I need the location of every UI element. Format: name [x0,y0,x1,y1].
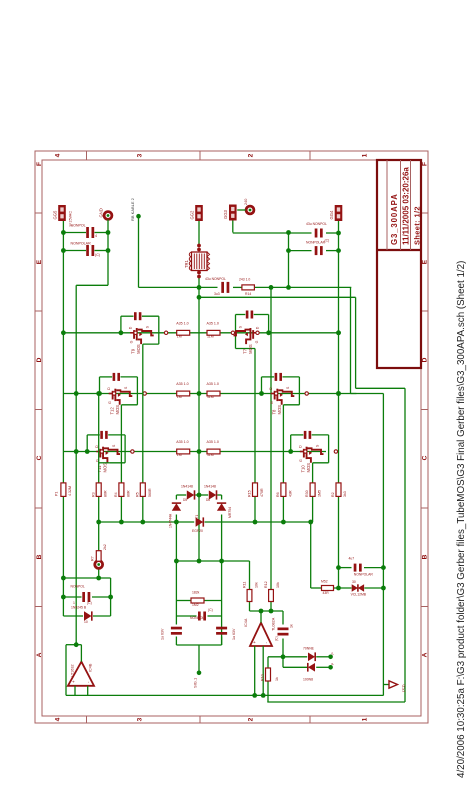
svg-text:470R: 470R [260,488,264,497]
svg-text:MOS: MOS [277,405,282,415]
svg-text:G: G [108,401,112,404]
svg-text:A35 1.0: A35 1.0 [207,440,219,444]
svg-text:1k: 1k [275,677,279,681]
svg-text:2: 2 [247,717,254,721]
svg-text:86R: 86R [104,490,108,497]
svg-text:SIG.1: SIG.1 [193,677,198,688]
svg-text:R15: R15 [248,490,252,497]
svg-text:(C): (C) [275,636,279,641]
svg-text:TR1: TR1 [184,259,189,268]
svg-text:3: 3 [136,717,143,721]
svg-text:D: D [298,445,302,448]
svg-text:MOS: MOS [248,344,253,354]
svg-text:T10: T10 [301,465,306,473]
svg-text:1N4148: 1N4148 [181,485,193,489]
svg-text:G: G [270,401,274,404]
svg-text:D: D [422,357,429,362]
svg-text:3u3: 3u3 [214,292,220,296]
svg-text:A: A [36,652,43,657]
svg-text:B: B [422,554,429,559]
svg-text:4: 4 [95,234,97,238]
svg-text:1M: 1M [177,395,182,399]
svg-text:D: D [269,387,273,390]
svg-text:1M: 1M [177,453,182,457]
svg-text:R5: R5 [135,492,139,497]
svg-text:G: G [299,459,303,462]
svg-text:B: B [36,554,43,559]
svg-text:182k: 182k [192,591,200,595]
svg-text:P1: P1 [55,492,59,496]
svg-text:4u7: 4u7 [349,557,355,561]
svg-text:F: F [422,162,429,166]
svg-text:R7: R7 [91,556,95,561]
svg-text:(C): (C) [87,601,92,605]
svg-text:MOS: MOS [103,463,108,473]
svg-text:G3_300APA: G3_300APA [390,193,399,245]
svg-text:A35 1.0: A35 1.0 [207,382,219,386]
svg-text:MOS: MOS [136,344,141,354]
svg-text:R3: R3 [91,492,95,497]
svg-text:GG5: GG5 [52,210,57,220]
svg-text:1M2: 1M2 [192,603,199,607]
svg-text:TL082A: TL082A [272,617,276,631]
svg-text:243 1.0: 243 1.0 [239,278,250,282]
svg-text:R30: R30 [305,490,309,497]
svg-text:LT1632: LT1632 [71,664,75,677]
svg-text:10k: 10k [255,582,259,588]
svg-text:1N4148: 1N4148 [204,485,216,489]
svg-text:3k3: 3k3 [343,491,347,497]
svg-text:A35 1.0: A35 1.0 [176,382,188,386]
svg-text:+: + [71,680,76,683]
svg-text:1=15VAC: 1=15VAC [69,211,73,227]
svg-text:1u 63V: 1u 63V [232,628,236,640]
svg-text:P: P [331,652,335,654]
svg-text:(C): (C) [208,608,213,612]
svg-text:86R: 86R [126,490,130,497]
svg-text:1M: 1M [177,334,182,338]
svg-text:(C): (C) [95,253,100,257]
svg-text:D6: D6 [206,498,210,502]
svg-text:IC4B: IC4B [89,663,93,672]
svg-text:Sheet: 1/2: Sheet: 1/2 [412,206,421,245]
svg-text:R14: R14 [245,292,251,296]
svg-text:T11: T11 [97,465,102,473]
svg-text:G: G [129,340,133,343]
svg-text:NONPOL: NONPOL [71,224,86,228]
svg-text:11/11/2005 03:20:26a: 11/11/2005 03:20:26a [402,167,411,245]
svg-text:A35 1.0: A35 1.0 [176,322,188,326]
svg-text:NONPOL: NONPOL [190,616,204,620]
svg-text:GG3: GG3 [223,209,228,219]
svg-text:RB KABLE 2: RB KABLE 2 [130,197,135,221]
svg-text:GG2: GG2 [189,210,194,220]
svg-text:D: D [107,387,111,390]
svg-text:G: G [255,340,259,343]
svg-text:R6: R6 [276,492,280,497]
svg-text:NONPOL: NONPOL [71,585,85,589]
svg-text:10: 10 [84,620,88,624]
svg-text:M52: M52 [321,580,328,584]
svg-text:F: F [36,162,43,166]
svg-text:43R: 43R [323,591,330,595]
svg-text:C: C [422,455,429,460]
svg-text:T7: T7 [243,348,248,354]
svg-text:GG4: GG4 [329,210,334,220]
svg-text:MOS: MOS [306,463,311,473]
svg-text:MOS: MOS [115,405,120,415]
svg-text:VCL12MB: VCL12MB [351,593,367,597]
svg-text:100N8: 100N8 [303,678,313,682]
svg-text:NONPOLAR: NONPOLAR [71,242,92,246]
svg-text:1N4744A: 1N4744A [169,513,173,528]
svg-text:4/20/2006 10:30:25a F:\G3 pro: 4/20/2006 10:30:25a F:\G3 product folder… [456,261,467,778]
svg-text:70NNE: 70NNE [303,647,315,651]
svg-text:MR754: MR754 [228,507,232,518]
svg-text:R10: R10 [261,674,265,681]
svg-text:1: 1 [73,601,75,605]
svg-text:30: 30 [352,580,356,584]
svg-text:2: 2 [247,153,254,157]
svg-text:2k2: 2k2 [103,544,107,550]
svg-text:240: 240 [244,199,248,205]
svg-text:1: 1 [361,153,368,157]
svg-text:1k: 1k [290,624,294,628]
svg-text:A35 1.0: A35 1.0 [176,440,188,444]
svg-text:T8: T8 [271,409,276,415]
svg-text:A: A [422,652,429,657]
svg-text:43R: 43R [288,490,292,497]
svg-text:D5: D5 [183,498,187,502]
svg-text:4.32M: 4.32M [68,486,72,496]
svg-text:1: 1 [361,717,368,721]
svg-text:D: D [256,326,260,329]
svg-text:R12: R12 [264,581,268,588]
svg-text:D: D [36,357,43,362]
svg-text:(C): (C) [325,239,330,243]
svg-text:T9: T9 [131,348,136,354]
svg-text:1u 63V: 1u 63V [161,628,165,640]
svg-text:T12: T12 [109,407,114,415]
svg-text:4: 4 [54,153,61,157]
svg-text:P: P [331,663,335,665]
svg-text:1M5: 1M5 [318,490,322,497]
svg-text:1N5245 B: 1N5245 B [71,606,87,610]
svg-text:EGP20: EGP20 [192,529,203,533]
svg-text:4: 4 [54,717,61,721]
svg-text:43u NONPOL: 43u NONPOL [205,277,226,281]
svg-text:10k: 10k [276,582,280,588]
svg-text:NONPOLAR: NONPOLAR [354,573,374,577]
svg-text:A35 1.0: A35 1.0 [207,322,219,326]
svg-text:11M: 11M [207,453,214,457]
svg-text:+: + [252,641,257,644]
svg-text:R4: R4 [114,492,118,497]
svg-text:11M: 11M [207,395,214,399]
svg-text:NONPOLAR: NONPOLAR [306,241,326,245]
svg-text:560R: 560R [148,488,152,497]
svg-text:E: E [36,259,43,264]
svg-text:T1: T1 [195,515,199,519]
svg-text:43u NONPOL: 43u NONPOL [306,222,327,226]
svg-text:C: C [36,455,43,460]
svg-text:E: E [422,259,429,264]
svg-text:R2: R2 [331,492,335,497]
svg-text:(X1): (X1) [401,684,406,692]
svg-text:3: 3 [136,153,143,157]
svg-text:11M: 11M [207,334,214,338]
svg-text:D: D [129,326,133,329]
svg-text:R11: R11 [243,582,247,588]
svg-text:IC4A: IC4A [244,618,248,627]
svg-text:GND: GND [99,208,104,217]
